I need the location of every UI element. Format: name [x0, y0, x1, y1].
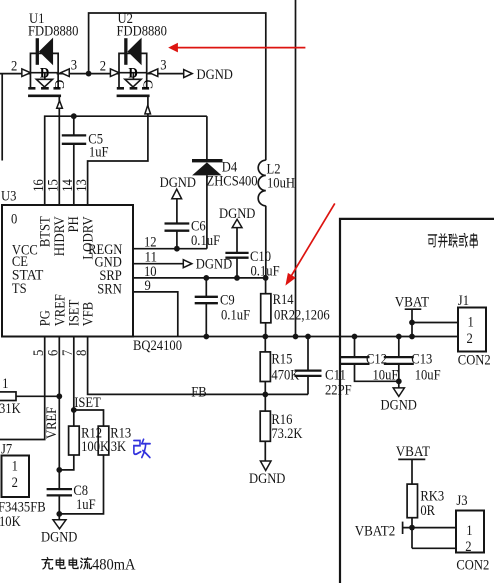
svg-text:8: 8: [73, 349, 90, 356]
svg-text:FDD8880: FDD8880: [117, 23, 168, 40]
svg-text:2: 2: [465, 538, 471, 555]
svg-text:R15: R15: [271, 351, 292, 368]
svg-text:ZHCS400: ZHCS400: [207, 173, 258, 190]
svg-text:2: 2: [12, 474, 18, 491]
svg-text:CON2: CON2: [456, 556, 489, 573]
svg-text:3K: 3K: [111, 438, 126, 455]
svg-text:3: 3: [160, 57, 166, 74]
svg-text:73.2K: 73.2K: [271, 425, 302, 442]
svg-text:G: G: [51, 80, 66, 90]
svg-text:DGND: DGND: [41, 529, 77, 546]
svg-text:13: 13: [73, 179, 90, 192]
svg-text:DGND: DGND: [381, 396, 417, 413]
svg-text:1: 1: [468, 313, 474, 330]
svg-text:470K: 470K: [271, 366, 299, 383]
svg-text:DGND: DGND: [249, 470, 285, 487]
svg-text:VBAT: VBAT: [395, 294, 430, 311]
svg-text:10uH: 10uH: [267, 174, 295, 191]
svg-text:10uF: 10uF: [373, 366, 399, 383]
svg-text:DGND: DGND: [196, 256, 232, 273]
svg-text:J7: J7: [1, 441, 13, 458]
svg-text:DGND: DGND: [197, 66, 233, 83]
svg-text:J3: J3: [456, 492, 467, 509]
svg-text:0R22,1206: 0R22,1206: [274, 306, 330, 323]
svg-text:FDD8880: FDD8880: [28, 23, 79, 40]
svg-text:0.1uF: 0.1uF: [221, 306, 250, 323]
svg-text:22PF: 22PF: [325, 381, 352, 398]
svg-text:G: G: [139, 80, 154, 90]
svg-text:3: 3: [71, 57, 77, 74]
svg-text:CON2: CON2: [458, 352, 491, 369]
svg-text:C13: C13: [411, 350, 432, 367]
svg-text:1: 1: [466, 522, 472, 539]
svg-text:VBAT2: VBAT2: [355, 523, 396, 540]
svg-text:2: 2: [467, 330, 473, 347]
svg-text:1: 1: [2, 375, 8, 392]
svg-text:0.1uF: 0.1uF: [191, 232, 220, 249]
svg-text:FB: FB: [191, 383, 206, 400]
svg-text:1uF: 1uF: [76, 496, 96, 513]
svg-text:U3: U3: [1, 187, 16, 204]
svg-text:31K: 31K: [0, 400, 21, 417]
svg-text:0R: 0R: [420, 502, 435, 519]
svg-text:0: 0: [11, 210, 18, 227]
svg-text:J1: J1: [458, 292, 469, 309]
svg-text:VREF: VREF: [43, 407, 60, 439]
svg-text:1uF: 1uF: [89, 143, 109, 160]
svg-text:SRN: SRN: [97, 281, 122, 298]
svg-text:2: 2: [100, 57, 106, 74]
svg-text:DGND: DGND: [219, 205, 255, 222]
svg-text:BQ24100: BQ24100: [133, 337, 182, 354]
svg-text:DGND: DGND: [160, 174, 196, 191]
svg-text:TS: TS: [12, 280, 27, 297]
svg-text:VFB: VFB: [80, 302, 97, 327]
svg-text:10uF: 10uF: [415, 366, 441, 383]
svg-text:R14: R14: [273, 291, 294, 308]
svg-text:VBAT: VBAT: [396, 443, 431, 460]
svg-text:9: 9: [145, 277, 151, 294]
svg-text:10K: 10K: [0, 513, 21, 530]
svg-text:480mA: 480mA: [92, 557, 136, 574]
svg-text:D: D: [128, 65, 138, 82]
svg-text:0.1uF: 0.1uF: [251, 263, 280, 280]
svg-text:D: D: [40, 65, 50, 82]
svg-text:2: 2: [11, 57, 17, 74]
svg-text:1: 1: [12, 457, 18, 474]
svg-text:ISET: ISET: [74, 394, 101, 411]
svg-text:100K: 100K: [81, 438, 109, 455]
svg-text:C12: C12: [366, 351, 387, 368]
